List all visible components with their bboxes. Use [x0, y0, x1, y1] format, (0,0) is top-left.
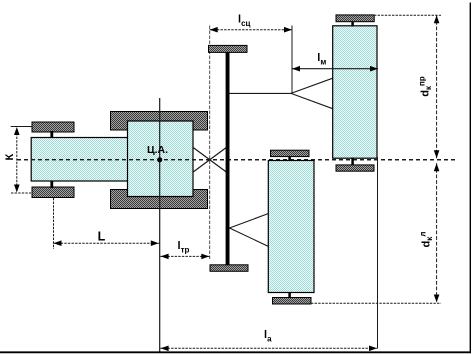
svg-text:L: L [98, 229, 106, 243]
extension line x=53.5 (front axle) [53, 198, 55, 249]
hitch frame top wheel [209, 45, 248, 52]
Ц.А. centre dot [157, 157, 162, 162]
extension line x=292 (hitch point of top machine) [291, 26, 293, 94]
hitch frame vertical bar [226, 52, 230, 264]
dimension l_м [292, 68, 378, 70]
dimension d_к^пр [436, 15, 438, 158]
tractor rear wheel top [111, 112, 208, 131]
hitch axis dash-dot line [209, 26, 211, 261]
tractor rear wheel bottom [111, 190, 208, 209]
extension line x=377.5 (right edge of top machine) [377, 157, 379, 349]
centre dashed axis line [17, 159, 455, 161]
top machine body [333, 26, 377, 158]
link beam to top machine [230, 92, 292, 94]
bottom machine top wheel [271, 150, 310, 156]
vertical line through rear axle (Ц.А.) [159, 98, 161, 352]
dimension l_а [160, 347, 377, 349]
bottom machine bottom axle stub [288, 292, 291, 298]
top machine top axle stub [351, 22, 354, 27]
top machine top wheel [336, 15, 374, 22]
label K (rotated) [4, 154, 16, 161]
dimension L [54, 242, 160, 244]
hitch frame bottom wheel [210, 265, 248, 272]
svg-text:Ц.А.: Ц.А. [147, 144, 168, 156]
bottom machine top axle stub [288, 157, 291, 161]
bottom border line [0, 351, 471, 353]
centre dashed axis line overlay [17, 159, 455, 161]
dimension K: extension bars [11, 126, 32, 128]
dimension K: line and arrows [16, 133, 18, 187]
tractor hitch crossed links (X) [193, 147, 227, 172]
tractor rear body [128, 121, 194, 197]
extension line y=15 (top machine wheel top) [374, 14, 441, 16]
right border line [469, 3, 471, 354]
bottom machine body [268, 161, 314, 293]
label d_к^пр (rotated) [418, 76, 434, 97]
bottom machine bottom wheel [273, 298, 312, 305]
top machine bottom wheel [336, 165, 374, 171]
top machine hitch triangle [291, 78, 333, 93]
svg-text:К: К [4, 154, 16, 161]
dimension l_тр [160, 255, 209, 257]
extension line y=303.5 (bottom machine bottom) [311, 302, 441, 304]
tractor front wheel top [32, 122, 74, 132]
dimension l_сц [210, 29, 292, 31]
bottom machine hitch triangle [230, 213, 269, 228]
tractor front wheel bottom [32, 187, 74, 198]
tractor narrow body [31, 138, 128, 182]
label d_к^л (rotated) [419, 232, 435, 248]
tractor front axle [50, 131, 53, 188]
top machine bottom axle stub [351, 158, 354, 165]
dimension d_к^л [436, 163, 438, 302]
